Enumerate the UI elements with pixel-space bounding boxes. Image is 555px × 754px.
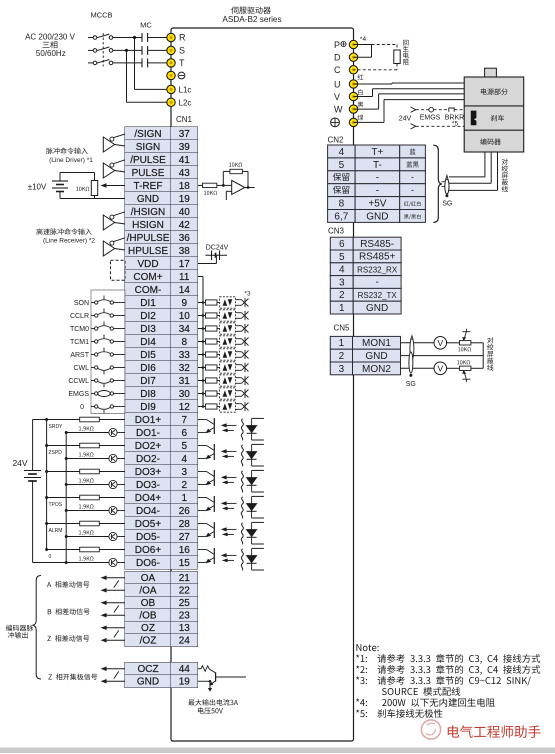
svg-text:/HSIGN: /HSIGN (131, 207, 165, 218)
svg-text:DI5: DI5 (140, 350, 156, 361)
wire P-D link (354, 45, 372, 58)
label 对绞屏蔽线 (encoder) (502, 159, 508, 192)
label ALRM (49, 528, 63, 534)
svg-text:T-REF: T-REF (134, 181, 163, 192)
svg-text:MC: MC (140, 21, 152, 30)
svg-text:S: S (179, 46, 185, 56)
diode D2 (DO2 clamp) (246, 444, 264, 466)
svg-text:DI7: DI7 (140, 376, 156, 387)
wire encoder cable (449, 152, 498, 190)
svg-text:SG: SG (406, 381, 416, 388)
svg-text:4: 4 (339, 265, 345, 276)
transistor Q2 (DO2 output) (198, 444, 215, 460)
op-amp U6 (232, 180, 245, 194)
svg-text:24: 24 (179, 636, 191, 647)
svg-text:L1c: L1c (179, 85, 192, 94)
wire OA differential output with arrow (101, 575, 125, 580)
svg-text:3: 3 (339, 364, 345, 375)
twisted pair slash (114, 580, 119, 587)
svg-text:SRDY: SRDY (49, 424, 64, 430)
wire phase T breaker to contactor (113, 62, 142, 64)
connector CN1 encoder-output table OA../OZ (125, 572, 198, 647)
relay indicator DO5- (66, 532, 125, 540)
terminal D (334, 53, 358, 63)
svg-text:16: 16 (179, 545, 191, 556)
terminal P⊕ (334, 40, 358, 50)
svg-text:CCWL: CCWL (68, 378, 89, 385)
wire phase S breaker to contactor (113, 49, 142, 51)
svg-text:2: 2 (181, 480, 187, 491)
wire CN5 GND (401, 355, 484, 357)
connector CN3 table (330, 237, 401, 314)
svg-text:DO5+: DO5+ (135, 519, 162, 530)
buffer U3 line driver PULSE (103, 160, 125, 178)
node junction on S for L2c (125, 49, 128, 52)
title label ASDA-B2 series (222, 15, 281, 24)
wire MON2 pot to common (471, 367, 483, 369)
switch CCLR (DI2) (70, 309, 125, 321)
terminal C (334, 65, 358, 75)
label A相差动信号 (47, 581, 89, 587)
wire MON2 to pot (447, 367, 460, 369)
terminal S (167, 46, 185, 56)
svg-text:19: 19 (179, 194, 191, 205)
svg-text:DO4+: DO4+ (135, 493, 162, 504)
svg-text:DO2-: DO2- (136, 454, 160, 465)
wire U phase (red) (354, 83, 465, 84)
svg-text:44: 44 (179, 664, 191, 675)
battery 24V external supply (12, 420, 41, 563)
svg-text:HSIGN: HSIGN (132, 220, 164, 231)
svg-text:CN2: CN2 (328, 135, 345, 144)
svg-text:1: 1 (181, 493, 187, 504)
svg-text:GND: GND (137, 677, 159, 688)
svg-text:MCCB: MCCB (90, 11, 112, 20)
svg-text:17: 17 (179, 259, 191, 270)
resistor 1.9KΩ (DO1+ pull) (79, 417, 125, 430)
svg-text:26: 26 (179, 506, 191, 517)
label 高速脉冲命令输入 (Line Receiver) *2 (36, 228, 95, 244)
svg-text:DI8: DI8 (140, 389, 156, 400)
svg-text:MON2: MON2 (362, 364, 391, 375)
battery ±10V source (28, 173, 68, 199)
svg-text:(Line Driver) *1: (Line Driver) *1 (49, 157, 93, 164)
svg-text:/OA: /OA (139, 586, 157, 597)
wire OCZ pin44 with arrow (101, 666, 125, 671)
terminal L1c (167, 85, 192, 94)
transistor Q3 (DO3 output) (198, 470, 215, 486)
svg-text:4: 4 (181, 454, 187, 465)
svg-text:24V: 24V (12, 458, 27, 468)
svg-text:7: 7 (181, 415, 187, 426)
node summing junction (222, 184, 225, 187)
svg-text:0: 0 (80, 404, 84, 411)
motor box 电源部分/刹车/编码器 (464, 77, 524, 152)
svg-text:/SIGN: /SIGN (134, 129, 161, 140)
optocoupler arrows DO4 (221, 501, 237, 510)
optocoupler DI7 input circuit (198, 375, 249, 386)
svg-text:OZ: OZ (141, 623, 155, 634)
label 0 (49, 554, 52, 560)
svg-text:GND: GND (137, 194, 159, 205)
resistor 1.9KΩ (DO3+ pull) (47, 469, 125, 482)
svg-text:22: 22 (179, 586, 191, 597)
ground terminal (331, 118, 358, 127)
relay indicator DO1- (66, 428, 125, 436)
wire feedback to output (242, 171, 248, 187)
svg-text:DO6-: DO6- (136, 558, 160, 569)
wire op-amp plus input stub (226, 191, 231, 200)
wire phase S contactor to terminal (148, 49, 167, 51)
svg-text:OA: OA (141, 573, 156, 584)
wire /OZ differential output with arrow (101, 638, 125, 643)
wire squiggle DO6 external (241, 549, 243, 571)
svg-text:/HPULSE: /HPULSE (127, 233, 170, 244)
transistor Q6 (DO6 output) (198, 548, 215, 564)
svg-text:39: 39 (179, 142, 191, 153)
svg-text:42: 42 (179, 220, 191, 231)
svg-text:DI4: DI4 (140, 337, 156, 348)
svg-text:(Line Receiver) *2: (Line Receiver) *2 (43, 237, 95, 244)
svg-text:-: - (376, 186, 379, 197)
buffer U5 line receiver HPULSE (103, 238, 125, 256)
shield cone CN5 (409, 336, 414, 374)
wire squiggle DO4 external (241, 497, 243, 519)
svg-text:/PULSE: /PULSE (130, 155, 166, 166)
svg-text:1: 1 (339, 303, 345, 314)
wire op-amp output (245, 186, 255, 189)
optocoupler DI5 input circuit (198, 349, 249, 360)
svg-text:GND: GND (366, 211, 388, 222)
servo drive enclosure U1 (ASDA-B2) (171, 28, 354, 741)
svg-text:R: R (179, 33, 186, 43)
svg-text:-: - (375, 277, 378, 288)
svg-text:P: P (334, 40, 340, 50)
wire DC24V to VDD pin17 (198, 255, 217, 263)
svg-text:50/60Hz: 50/60Hz (36, 49, 66, 58)
svg-text:SIGN: SIGN (136, 142, 160, 153)
svg-text:U: U (334, 79, 341, 89)
relay indicator DO3- (66, 480, 125, 488)
label Z相差动信号 (47, 635, 89, 641)
svg-text:V: V (334, 92, 340, 102)
connector CN1 main table pins 37..15 (125, 127, 198, 569)
contactor MC label (140, 21, 152, 30)
optocoupler arrows DO3 (221, 475, 237, 484)
twisted pair slash OCZ (114, 671, 119, 678)
svg-text:MON1: MON1 (362, 338, 391, 349)
svg-text:2: 2 (339, 290, 345, 301)
svg-text:36: 36 (179, 233, 191, 244)
relay indicator DO2- (66, 454, 125, 462)
wire ±10V top rail (60, 173, 95, 181)
svg-text:1: 1 (339, 338, 345, 349)
svg-text:10: 10 (179, 311, 191, 322)
wire GND pin19 with arrow (101, 679, 125, 684)
wire ground (green) (354, 100, 465, 123)
svg-text:37: 37 (179, 129, 191, 140)
wire T-REF pin18 to input resistor (198, 184, 203, 186)
switch TCM1 (DI4) (70, 335, 125, 347)
battery DC24V (206, 245, 229, 261)
wire dashed regen to C (354, 64, 398, 70)
svg-text:L2c: L2c (179, 98, 192, 107)
wire feedback top (223, 171, 230, 185)
resistor 10KΩ (input divider) (76, 181, 98, 196)
svg-text:CN1: CN1 (176, 115, 193, 124)
svg-text:31: 31 (179, 376, 191, 387)
optocoupler DI6 input circuit (198, 362, 249, 373)
svg-text:DO1-: DO1- (136, 428, 160, 439)
label BRKR (445, 115, 464, 122)
wire squiggle DO5 external (241, 523, 243, 545)
label 回生电阻 (403, 40, 409, 65)
voltmeter V1 (434, 337, 447, 350)
svg-text:*4: *4 (360, 36, 367, 43)
terminal L2c (167, 98, 192, 107)
wire phase R contactor to terminal (148, 37, 167, 39)
svg-text:40: 40 (179, 207, 191, 218)
relay indicator DO6- (66, 558, 125, 566)
label B相差动信号 (48, 608, 90, 614)
breaker MCCB label (90, 11, 112, 20)
title label 伺服驱动器 (231, 7, 271, 14)
svg-text:27: 27 (179, 532, 191, 543)
svg-text:ALRM: ALRM (49, 528, 63, 534)
svg-text:DO1+: DO1+ (135, 415, 162, 426)
label 脉冲命令输入 (Line Driver) *1 (46, 148, 93, 164)
svg-text:8: 8 (181, 337, 187, 348)
svg-text:EMGS: EMGS (68, 391, 89, 398)
optocoupler DI2 input circuit (198, 310, 249, 321)
svg-text:DO3-: DO3- (136, 480, 160, 491)
buffer U2 line driver SIGN (103, 134, 125, 152)
diode D6 (DO6 clamp) (246, 548, 264, 570)
label EMGS (420, 115, 441, 122)
connector CN2 table (328, 145, 426, 222)
resistor 1.9KΩ (DO5+ pull) (47, 521, 125, 534)
diode D5 (DO5 clamp) (246, 522, 264, 544)
motor shaft tab (485, 68, 497, 77)
svg-text:4: 4 (339, 147, 345, 158)
contactor MC contact R (142, 33, 148, 42)
svg-text:-: - (411, 185, 414, 195)
wire phase R source side (88, 37, 93, 39)
resistor 10KΩ pot (MON2) (457, 360, 471, 382)
switch SON (DI1) (74, 296, 125, 308)
wire W phase (black) (354, 94, 465, 109)
wire dashed to regen resistor (372, 45, 398, 51)
wire phase S source side (88, 49, 93, 51)
connector CN3 label (328, 227, 345, 236)
label 绿 (358, 115, 364, 121)
svg-text:+5V: +5V (368, 198, 386, 209)
connector CN2 label (328, 135, 345, 144)
svg-text:EMGS: EMGS (420, 115, 441, 122)
svg-text:15: 15 (179, 558, 191, 569)
node SG (CN5 shield) (406, 374, 416, 388)
svg-text:-: - (376, 173, 379, 184)
contact BRKR (449, 108, 464, 112)
svg-text:DO5-: DO5- (136, 532, 160, 543)
svg-text:TCM0: TCM0 (70, 326, 89, 333)
brace encoder outputs (32, 576, 41, 680)
breaker MCCB mechanical link (dashed) (102, 33, 104, 67)
twisted pair slash (114, 630, 119, 637)
breaker MCCB pole R (93, 34, 113, 39)
label *5 (452, 121, 459, 128)
optocoupler arrows DO6 (221, 553, 237, 562)
svg-text:OB: OB (141, 598, 156, 609)
svg-text:19: 19 (179, 677, 191, 688)
svg-text:RS485+: RS485+ (359, 252, 396, 263)
svg-text:23: 23 (179, 611, 191, 622)
wire 24V- return to DO- bus (33, 562, 67, 564)
wire phase R breaker to contactor (113, 37, 142, 39)
wire MON1 pot to common (471, 343, 483, 369)
svg-text:T-: T- (373, 160, 382, 171)
svg-text:GND: GND (365, 351, 387, 362)
svg-text:6: 6 (181, 428, 187, 439)
wire squiggle DO2 external (241, 445, 243, 467)
node SG (CN2 shield) (442, 194, 452, 207)
watermark stamp icon (421, 720, 440, 739)
svg-text:2: 2 (339, 351, 345, 362)
svg-text:30: 30 (179, 389, 191, 400)
contactor MC contact S (142, 46, 148, 55)
svg-text:ZSPD: ZSPD (49, 450, 63, 456)
transistor Q5 (DO5 output) (198, 522, 215, 538)
note block (356, 644, 540, 718)
svg-text:13: 13 (179, 623, 191, 634)
optocoupler DI1 input circuit (198, 297, 249, 308)
svg-text:DO6+: DO6+ (135, 545, 162, 556)
transistor Q7 (OCZ open collector) (209, 672, 246, 686)
svg-text:±10V: ±10V (28, 182, 47, 191)
svg-text:CN3: CN3 (328, 227, 345, 236)
wire brake dashed bottom (411, 124, 465, 129)
svg-text:41: 41 (179, 155, 191, 166)
label 对绞屏蔽线 (CN5) (487, 337, 493, 370)
svg-text:5: 5 (181, 441, 187, 452)
wire branch to L2c (127, 50, 168, 102)
svg-text:SG: SG (442, 200, 452, 207)
svg-text:SON: SON (74, 300, 89, 307)
label *4 (360, 36, 367, 43)
svg-text:12: 12 (179, 402, 191, 413)
svg-text:VDD: VDD (137, 259, 158, 270)
svg-text:DI6: DI6 (140, 363, 156, 374)
label Z相开集极信号 (48, 674, 97, 680)
wire OB differential output with arrow (101, 600, 125, 605)
svg-text:5: 5 (339, 160, 345, 171)
diode D1 (DO1 clamp) (246, 418, 264, 440)
wire DO+ bus vertical (45, 420, 48, 552)
resistor 回生电阻 (regenerative) (394, 50, 400, 64)
svg-text:DI2: DI2 (140, 311, 156, 322)
label 编码器脉冲输出 (6, 625, 34, 639)
label 红 (358, 74, 364, 79)
svg-text:V: V (437, 338, 443, 348)
terminal V (334, 92, 358, 102)
label SRDY (49, 424, 64, 430)
svg-text:W: W (334, 104, 343, 114)
diode D3 (DO3 clamp) (246, 470, 264, 492)
svg-text:TCM1: TCM1 (70, 339, 89, 346)
switch 0 (DI9) (80, 404, 125, 414)
svg-text:25: 25 (179, 598, 191, 609)
svg-text:CCLR: CCLR (70, 313, 89, 320)
brace CN2 cable (433, 145, 442, 222)
optocoupler arrows DO2 (221, 449, 237, 458)
svg-text:OCZ: OCZ (137, 664, 158, 675)
contact EMGS (429, 107, 448, 112)
switch ARST (DI5) (70, 348, 125, 360)
shield cone CN2 (445, 175, 449, 194)
switch CCWL (DI7) (68, 378, 125, 388)
optocoupler DI3 input circuit (198, 323, 249, 334)
transistor Q1 (DO1 output) (198, 418, 215, 434)
terminal protective earth (167, 71, 185, 79)
svg-text:RS485-: RS485- (360, 239, 394, 250)
svg-text:33: 33 (179, 350, 191, 361)
svg-text:DO3+: DO3+ (135, 467, 162, 478)
label ZSPD (49, 450, 63, 456)
label 24V (brake) (399, 116, 412, 123)
wire /OB differential output with arrow (101, 613, 125, 618)
svg-text:5: 5 (339, 252, 345, 263)
svg-text:COM-: COM- (135, 285, 162, 296)
label *3 (244, 291, 251, 298)
breaker MCCB pole T (93, 60, 113, 65)
DI switch group box (91, 290, 125, 414)
diode D4 (DO4 clamp) (246, 496, 264, 518)
label 最大输出电流3A 电压50V (188, 699, 238, 714)
wire OCZ squiggle (198, 666, 216, 673)
svg-text:CWL: CWL (73, 365, 89, 372)
svg-text:ARST: ARST (70, 352, 89, 359)
wire GND to emitter with down arrow (198, 680, 213, 692)
wire squiggle DO1 external (241, 419, 243, 441)
optocoupler DI4 input circuit (198, 336, 249, 347)
switch EMGS (DI8) (68, 391, 125, 399)
AC source labels (25, 33, 75, 58)
optocoupler DI8 input circuit (198, 388, 249, 399)
svg-text:AC 200/230 V: AC 200/230 V (25, 33, 75, 42)
svg-text:GND: GND (366, 303, 388, 314)
wire DO- bus vertical (65, 431, 68, 564)
svg-text:ASDA-B2 series: ASDA-B2 series (222, 15, 281, 24)
svg-text:COM+: COM+ (133, 272, 162, 283)
svg-text:6,7: 6,7 (334, 211, 348, 222)
wire squiggle DO3 external (241, 471, 243, 493)
resistor 10KΩ pot (MON1) (458, 329, 471, 352)
node junction on R for L1c (133, 36, 136, 39)
watermark 电气工程师助手 (448, 725, 541, 738)
transistor Q4 (DO4 output) (198, 496, 215, 512)
svg-text:32: 32 (179, 363, 191, 374)
resistor 1.9KΩ (DO6+ pull) (47, 547, 125, 560)
optocoupler arrows DO1 (221, 423, 237, 432)
svg-text:D: D (334, 53, 341, 63)
wire 24V+ rail to DO+ bus (33, 418, 80, 421)
label TPOS (49, 502, 63, 508)
resistor 1.9KΩ (DO2+ pull) (47, 443, 125, 456)
svg-text:V: V (437, 363, 443, 373)
svg-text:*3: *3 (244, 291, 251, 298)
wire branch to L1c (135, 38, 168, 90)
wire T-REF with arrow (101, 183, 126, 188)
